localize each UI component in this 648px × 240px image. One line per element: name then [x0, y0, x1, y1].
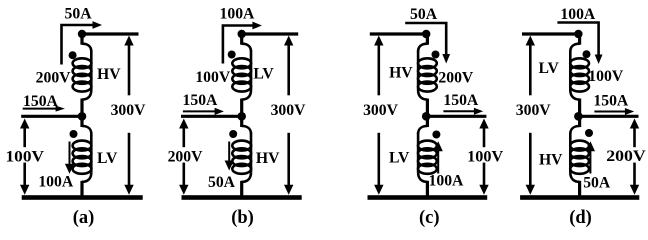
wire: bottom bus bar (c)	[368, 195, 488, 200]
wire: 50A input lead (c)	[405, 23, 446, 55]
wire: 150A input lead (a)	[21, 115, 82, 118]
svg-text:50A: 50A	[583, 175, 611, 192]
svg-text:100V: 100V	[588, 68, 624, 85]
node: top junction (d)	[574, 30, 582, 38]
node: top junction (c)	[422, 30, 430, 38]
node: centre tap junction (a)	[78, 112, 87, 121]
svg-text:150A: 150A	[593, 92, 629, 109]
svg-text:200V: 200V	[438, 70, 474, 87]
svg-text:300V: 300V	[271, 102, 307, 119]
svg-text:100A: 100A	[560, 6, 596, 23]
wire: 150A output lead (d)	[578, 115, 638, 118]
arrow: 50A winding current (b)	[228, 142, 230, 162]
wire: top horizontal (d)	[522, 32, 578, 35]
svg-text:200V: 200V	[606, 148, 646, 165]
svg-text:HV: HV	[389, 65, 413, 82]
arrow: 300V measure (d)	[526, 36, 535, 46]
inductor LV winding (c)	[426, 116, 429, 127]
svg-text:100A: 100A	[220, 6, 256, 23]
arrow: 300V measure (b)	[284, 36, 293, 46]
svg-text:300V: 300V	[363, 102, 399, 119]
wire: top horizontal (c)	[370, 32, 426, 35]
node: top junction (b)	[238, 30, 246, 38]
polarity dot HV (a)	[69, 51, 77, 59]
svg-text:(c): (c)	[419, 208, 440, 228]
svg-text:LV: LV	[389, 150, 410, 167]
wire: top horizontal (a)	[82, 32, 139, 35]
arrow: 300V measure (a)	[124, 36, 133, 46]
arrow: 150A current (a)	[23, 108, 57, 110]
node: top junction (a)	[78, 30, 86, 38]
node: centre tap junction (d)	[574, 112, 583, 121]
inductor HV winding (c)	[426, 34, 429, 45]
polarity dot LV (b)	[228, 51, 236, 59]
svg-text:LV: LV	[97, 150, 118, 167]
svg-text:100V: 100V	[467, 148, 504, 165]
svg-text:300V: 300V	[516, 102, 552, 119]
svg-text:150A: 150A	[443, 92, 479, 109]
inductor LV winding (a)	[80, 116, 83, 127]
svg-text:100V: 100V	[6, 149, 45, 166]
svg-text:HV: HV	[97, 66, 121, 83]
wire: 150A input lead (b)	[181, 115, 242, 118]
svg-text:100V: 100V	[195, 69, 231, 86]
arrow: 150A current (c)	[443, 110, 474, 112]
inductor LV winding (b)	[240, 34, 243, 45]
wire: 50A output lead (a)	[62, 25, 94, 65]
arrow: 200V measure (d)	[630, 119, 639, 129]
wire: 150A output lead (c)	[426, 115, 486, 118]
wire: bottom bus bar (b)	[182, 195, 302, 200]
svg-text:150A: 150A	[183, 92, 219, 109]
arrow: 150A current (d)	[594, 111, 625, 113]
svg-text:(d): (d)	[569, 208, 592, 228]
svg-text:150A: 150A	[23, 93, 59, 110]
arrow: 100V measure (c)	[479, 119, 488, 129]
svg-text:300V: 300V	[111, 102, 147, 119]
arrow: 300V measure (c)	[374, 36, 383, 46]
polarity dot HV (c)	[432, 51, 440, 59]
inductor HV winding (b)	[240, 116, 243, 127]
svg-text:200V: 200V	[36, 69, 72, 86]
node: centre tap junction (b)	[237, 112, 246, 121]
node: centre tap junction (c)	[422, 112, 431, 121]
arrow: 100V measure (a)	[20, 119, 29, 129]
svg-text:50A: 50A	[410, 6, 438, 23]
arrow: 100A winding current (a)	[69, 142, 71, 166]
inductor HV winding (d)	[578, 116, 581, 127]
wire: bottom bus bar (a)	[22, 195, 143, 200]
svg-text:(a): (a)	[73, 208, 95, 228]
svg-text:100A: 100A	[429, 173, 465, 190]
arrow: 200V measure (b)	[179, 119, 188, 129]
svg-text:(b): (b)	[231, 208, 254, 228]
polarity dot LV (c)	[432, 131, 440, 139]
wire: 100A output lead (b)	[223, 26, 253, 64]
polarity dot HV (b)	[229, 130, 237, 138]
svg-text:LV: LV	[253, 66, 274, 83]
polarity dot LV (d)	[583, 50, 591, 58]
wire: top horizontal (b)	[242, 32, 299, 35]
arrow: 150A current (b)	[183, 110, 216, 112]
svg-text:100A: 100A	[38, 173, 74, 190]
polarity dot HV (d)	[585, 129, 593, 137]
inductor LV winding (d)	[578, 34, 581, 45]
arrow: 100A winding current (c)	[434, 141, 443, 151]
svg-text:200V: 200V	[168, 149, 204, 166]
svg-text:LV: LV	[538, 60, 559, 77]
svg-text:HV: HV	[539, 151, 563, 168]
polarity dot LV (a)	[70, 130, 78, 138]
arrow: 50A winding current (d)	[586, 141, 595, 151]
svg-text:HV: HV	[256, 150, 280, 167]
inductor HV winding (a)	[80, 34, 83, 45]
svg-text:50A: 50A	[208, 174, 236, 191]
svg-text:50A: 50A	[65, 6, 93, 23]
wire: bottom bus bar (d)	[520, 195, 639, 200]
wire: 100A input lead (d)	[557, 23, 598, 56]
